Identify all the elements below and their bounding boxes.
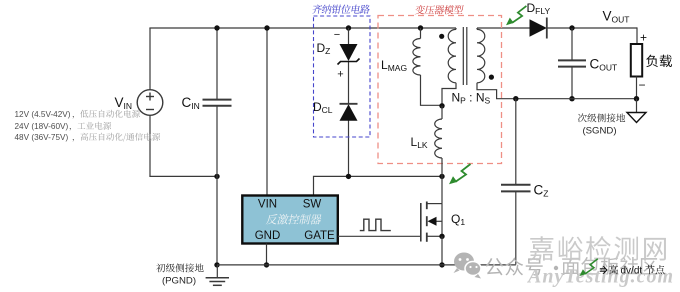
label CZ: [534, 183, 549, 199]
pin label SW: [303, 199, 322, 211]
label LLK: [411, 135, 428, 150]
label input voltage ranges line2: [15, 122, 112, 131]
pin label VIN: [258, 199, 277, 211]
transformer secondary winding: [477, 28, 485, 83]
node junction SW / LLK / Q1 drain: [439, 174, 444, 179]
label load (CJK): [646, 55, 672, 67]
label load plus: [640, 31, 647, 45]
wire VIN pin riser: [266, 28, 268, 195]
svg-text:24V (18V-60V): 24V (18V-60V): [15, 122, 69, 131]
pin label GND: [255, 230, 281, 242]
node junction secondary return / CZ: [513, 96, 518, 101]
label COUT: [590, 57, 618, 73]
label transformer model title (red): [415, 5, 464, 14]
wire CZ top riser: [515, 99, 517, 185]
ground PGND symbol: [206, 265, 229, 285]
label input voltage ranges line3: [15, 133, 161, 142]
wire load bottom riser: [636, 77, 638, 99]
wire clamp bottom to SW node: [348, 121, 350, 177]
label DZ: [317, 41, 331, 56]
node junction top rail / clamp: [346, 25, 351, 30]
inductor LLK: [435, 119, 442, 158]
label DZ plus: [337, 69, 343, 81]
label LMAG: [381, 58, 407, 73]
label (SGND): [582, 126, 616, 137]
svg-text:+: +: [337, 69, 343, 81]
node junction GND pin / PGND rail: [264, 262, 269, 267]
watermark gongzhonghao text: [485, 257, 657, 276]
gate drive pulse symbol: [360, 219, 391, 230]
wire LMAG bottom: [421, 75, 443, 105]
wire VIN- to CIN node: [149, 175, 217, 177]
transformer core: [463, 27, 467, 85]
node junction top rail / VIN pin: [264, 25, 269, 30]
diode DCL: [340, 104, 358, 121]
label load minus: [638, 78, 645, 92]
svg-text:dv/dt: dv/dt: [621, 266, 643, 277]
label DFLY: [527, 1, 551, 16]
wire CIN top riser: [216, 28, 218, 99]
svg-text:48V (36V-75V): 48V (36V-75V): [15, 133, 69, 142]
wire CIN bottom riser: [216, 106, 218, 265]
annotation high dv/dt node: [600, 265, 665, 276]
svg-text:SW: SW: [303, 199, 322, 211]
zener clamp dashed box: [314, 16, 371, 137]
watermark jiayu testing: [530, 236, 666, 261]
svg-text:−: −: [638, 78, 645, 92]
label PGND (CJK): [156, 263, 203, 272]
wire LLK top: [441, 106, 443, 119]
svg-text:(SGND): (SGND): [582, 126, 616, 137]
wire secondary bottom: [477, 83, 516, 99]
green annotation arrow at Dfly anode: [506, 6, 526, 25]
node junction VOUT / COUT: [569, 25, 574, 30]
ground SGND symbol: [627, 99, 646, 123]
node junction COUT / SGND rail: [569, 96, 574, 101]
wire VIN source top riser: [149, 28, 151, 90]
svg-text:GND: GND: [255, 230, 281, 242]
svg-text:(PGND): (PGND): [162, 276, 196, 287]
wire LLK bottom to SW node: [441, 158, 443, 176]
node junction top rail / LMAG: [418, 25, 423, 30]
capacitor CZ: [501, 185, 531, 192]
node junction clamp / SW wire: [346, 174, 351, 179]
primary phase dot: [439, 34, 444, 39]
svg-text:VIN: VIN: [258, 199, 277, 211]
wire LMAG top: [420, 28, 422, 39]
voltage source VIN circle: [137, 90, 163, 116]
transformer model dashed box: [378, 16, 502, 164]
node junction CIN / PGND rail: [214, 262, 219, 267]
wire clamp middle (DZ-DCL): [348, 62, 350, 104]
wire SW node horizontal: [314, 176, 443, 195]
label input voltage ranges line1: [15, 110, 140, 119]
wire COUT bottom riser: [571, 67, 573, 99]
node junction Q1 source / PGND rail: [439, 262, 444, 267]
wire VOUT net: [547, 27, 637, 44]
wire VIN source bottom riser: [149, 115, 151, 176]
wire Q1 source to PGND rail: [441, 236, 443, 264]
label Q1: [451, 212, 465, 227]
svg-text:12V (4.5V-42V): 12V (4.5V-42V): [15, 110, 71, 119]
wire GATE to Q1 gate: [338, 235, 421, 237]
pin label GATE: [304, 230, 335, 242]
wire CZ bottom riser: [515, 191, 517, 264]
diode DFLY: [530, 18, 547, 39]
wire secondary top (Dfly anode): [477, 27, 530, 29]
wire COUT top riser: [571, 28, 573, 60]
watermark AnyTesting.com: [526, 266, 674, 288]
label VIN: [115, 95, 133, 111]
node junction top rail / CIN: [214, 25, 219, 30]
transformer primary winding: [448, 28, 456, 83]
wire primary bottom: [442, 83, 456, 106]
svg-text:−: −: [334, 29, 340, 41]
flyback controller U1 box: [242, 196, 337, 244]
label VOUT: [603, 9, 630, 25]
wire SGND rail: [516, 98, 637, 100]
wire top input rail (VIN+ net): [149, 27, 456, 29]
label flyback controller (CJK white italic): [266, 214, 323, 224]
wire Q1 drain riser: [441, 176, 443, 203]
label SGND (CJK): [578, 113, 625, 122]
label DCL: [313, 100, 333, 115]
capacitor COUT: [558, 60, 586, 66]
zener diode DZ: [338, 44, 360, 65]
wire GND pin to PGND rail: [266, 244, 268, 265]
wire clamp top: [348, 28, 350, 44]
label NP:NS: [452, 91, 491, 106]
label DZ minus: [334, 29, 340, 41]
node junction load / SGND: [634, 96, 639, 101]
svg-text:GATE: GATE: [304, 230, 335, 242]
node junction LMAG/primary/LLK: [439, 103, 444, 108]
secondary phase dot: [489, 75, 494, 80]
transistor Q1 (NMOS): [421, 202, 442, 242]
node junction Q1 source: [439, 234, 444, 239]
green annotation arrow legend: [580, 259, 598, 276]
watermark wechat icon: [454, 253, 482, 279]
green annotation arrow at Q1 drain (SW node): [449, 164, 471, 184]
node junction VIN-/CIN: [214, 174, 219, 179]
svg-text:+: +: [640, 31, 647, 45]
resistor load (negative): [631, 44, 642, 77]
label zener clamp title (blue): [312, 5, 371, 14]
inductor LMAG: [413, 39, 421, 75]
capacitor CIN: [203, 100, 232, 106]
label CIN: [182, 95, 200, 111]
wire PGND rail: [217, 264, 516, 266]
label (PGND): [162, 276, 196, 287]
